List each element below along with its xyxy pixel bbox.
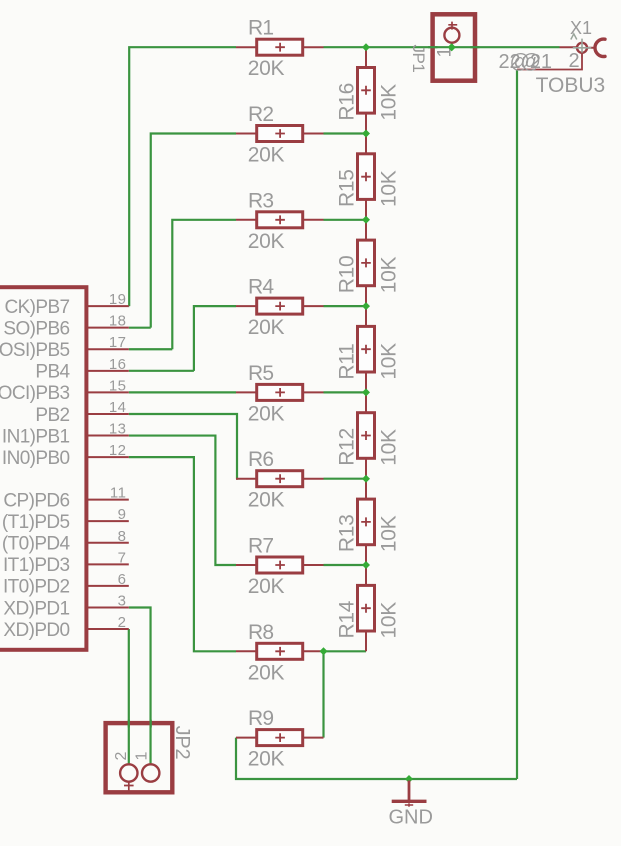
svg-text:R12: R12 <box>336 428 359 466</box>
svg-text:18: 18 <box>109 313 127 330</box>
svg-text:20K: 20K <box>248 748 285 771</box>
svg-text:2@1: 2@1 <box>510 51 553 73</box>
svg-text:XD)PD0: XD)PD0 <box>3 620 69 641</box>
svg-text:15: 15 <box>109 377 127 394</box>
svg-text:R5: R5 <box>248 362 273 385</box>
svg-text:R4: R4 <box>248 276 274 299</box>
svg-text:X1: X1 <box>570 18 592 38</box>
svg-text:OSI)PB5: OSI)PB5 <box>0 340 70 361</box>
svg-text:12: 12 <box>109 442 127 459</box>
svg-text:14: 14 <box>109 399 127 416</box>
svg-text:20K: 20K <box>248 316 285 339</box>
svg-text:20K: 20K <box>248 144 285 167</box>
svg-text:R10: R10 <box>336 256 359 294</box>
svg-text:IT1)PD3: IT1)PD3 <box>3 555 70 576</box>
svg-text:R15: R15 <box>336 169 359 207</box>
svg-text:9: 9 <box>118 506 127 523</box>
svg-text:20K: 20K <box>248 575 285 598</box>
svg-text:PB2: PB2 <box>35 405 69 426</box>
svg-text:2: 2 <box>113 752 130 761</box>
svg-text:19: 19 <box>109 291 127 308</box>
svg-text:6: 6 <box>118 571 127 588</box>
svg-text:10K: 10K <box>377 84 400 121</box>
svg-text:R13: R13 <box>336 514 359 552</box>
svg-text:CK)PB7: CK)PB7 <box>4 297 69 318</box>
svg-text:R11: R11 <box>336 344 359 380</box>
svg-text:R3: R3 <box>248 189 273 212</box>
svg-text:(T0)PD4: (T0)PD4 <box>2 534 71 555</box>
svg-text:8: 8 <box>118 528 127 545</box>
svg-text:2: 2 <box>569 50 580 72</box>
svg-text:R14: R14 <box>336 600 359 638</box>
svg-text:17: 17 <box>109 334 127 351</box>
svg-text:10K: 10K <box>377 343 400 380</box>
svg-text:IT0)PD2: IT0)PD2 <box>3 577 70 598</box>
svg-text:16: 16 <box>109 356 127 373</box>
svg-text:PB4: PB4 <box>35 362 70 383</box>
svg-text:10K: 10K <box>377 602 400 639</box>
svg-text:R1: R1 <box>248 17 273 40</box>
svg-text:3: 3 <box>118 593 127 610</box>
svg-text:SO)PB6: SO)PB6 <box>3 319 69 340</box>
svg-text:R6: R6 <box>248 448 273 471</box>
svg-text:10K: 10K <box>377 170 400 207</box>
svg-text:10K: 10K <box>377 256 400 293</box>
svg-text:R16: R16 <box>336 83 359 121</box>
svg-text:IN0)PB0: IN0)PB0 <box>2 448 70 469</box>
svg-text:20K: 20K <box>248 661 285 684</box>
svg-text:OCI)PB3: OCI)PB3 <box>0 383 70 404</box>
svg-text:JP2: JP2 <box>171 726 193 760</box>
svg-text:2: 2 <box>118 614 127 631</box>
svg-text:XD)PD1: XD)PD1 <box>3 598 69 619</box>
svg-text:GND: GND <box>389 807 433 829</box>
svg-text:10K: 10K <box>377 429 400 466</box>
svg-text:7: 7 <box>118 549 127 566</box>
svg-text:20K: 20K <box>248 230 285 253</box>
svg-text:IN1)PB1: IN1)PB1 <box>2 426 70 447</box>
svg-text:CP)PD6: CP)PD6 <box>3 490 69 511</box>
svg-text:R7: R7 <box>248 535 273 558</box>
svg-text:10K: 10K <box>377 515 400 552</box>
svg-text:13: 13 <box>109 421 127 438</box>
svg-text:R9: R9 <box>248 707 273 730</box>
svg-text:11: 11 <box>110 485 127 502</box>
svg-text:R2: R2 <box>248 103 273 126</box>
svg-text:1: 1 <box>134 752 151 761</box>
svg-text:TOBU3: TOBU3 <box>536 74 606 97</box>
svg-text:JP1: JP1 <box>409 45 428 73</box>
svg-text:20K: 20K <box>248 57 285 80</box>
svg-text:R8: R8 <box>248 621 273 644</box>
svg-text:20K: 20K <box>248 402 285 425</box>
svg-text:(T1)PD5: (T1)PD5 <box>2 512 70 533</box>
svg-text:20K: 20K <box>248 489 285 512</box>
